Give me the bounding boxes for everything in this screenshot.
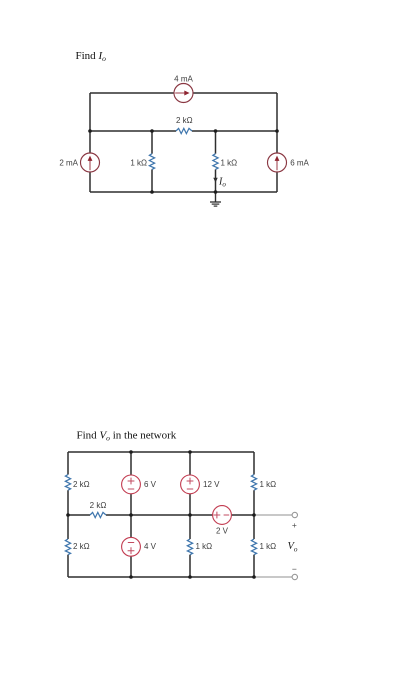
wire right vertical upper stub circuit 2 <box>253 452 255 475</box>
junction branch1-bottom circuit 1 <box>150 190 154 194</box>
junction branch2-bottom ground node circuit 1 <box>214 190 218 194</box>
wire output lead top (gray) <box>254 514 292 516</box>
wire bottom rail circuit 2 <box>68 576 254 578</box>
output terminal bottom <box>292 574 297 579</box>
wire branch x=190 lower circuit 2 <box>189 555 191 577</box>
junction middle x=68 circuit 2 <box>66 513 70 517</box>
resistor 2 kOhm horizontal circuit 1 <box>176 128 192 133</box>
svg-text:+: + <box>292 520 297 530</box>
junction middle x=254 circuit 2 <box>252 513 256 517</box>
svg-text:2 kΩ: 2 kΩ <box>73 542 90 551</box>
svg-text:−: − <box>292 564 297 574</box>
wire branch x=190 upper circuit 2 <box>189 452 191 539</box>
output terminal top <box>292 512 297 517</box>
voltage source 6 V <box>122 475 141 494</box>
wire branch x=152 lower stub <box>151 169 153 192</box>
wire branch x=152 upper stub <box>151 131 153 154</box>
junction bottom x=131 circuit 2 <box>129 575 133 579</box>
svg-text:6 mA: 6 mA <box>290 158 309 167</box>
wire output lead bottom (gray) <box>254 576 292 578</box>
svg-text:1 kΩ: 1 kΩ <box>130 158 147 167</box>
svg-text:1 kΩ: 1 kΩ <box>260 542 277 551</box>
wire middle rail segment b circuit 2 <box>106 514 254 516</box>
junction right-middle circuit 1 <box>275 129 279 133</box>
svg-text:Vo: Vo <box>288 541 298 554</box>
svg-text:Io: Io <box>218 177 226 189</box>
arrow Io current direction <box>213 178 217 183</box>
wire middle rail right segment circuit 1 <box>192 130 277 132</box>
wire branch x=215.5 lower stub <box>215 169 217 192</box>
wire bottom rail circuit 1 <box>90 191 277 193</box>
svg-text:2 kΩ: 2 kΩ <box>73 480 90 489</box>
svg-text:4 V: 4 V <box>144 542 157 551</box>
junction middle x=190 circuit 2 <box>188 513 192 517</box>
junction bottom x=190 circuit 2 <box>188 575 192 579</box>
svg-text:1 kΩ: 1 kΩ <box>260 480 277 489</box>
svg-text:4 mA: 4 mA <box>174 74 193 83</box>
junction top x=131 circuit 2 <box>129 450 133 454</box>
junction branch2-middle circuit 1 <box>214 129 218 133</box>
junction bottom x=254 circuit 2 <box>252 575 256 579</box>
wire left vertical upper stub circuit 2 <box>67 452 69 475</box>
voltage source 4 V <box>122 537 141 556</box>
svg-text:2 V: 2 V <box>216 527 229 536</box>
wire top rail circuit 2 <box>68 451 254 453</box>
ground symbol <box>210 192 221 206</box>
voltage source 12 V <box>181 475 200 494</box>
junction left-middle circuit 1 <box>88 129 92 133</box>
junction top x=190 circuit 2 <box>188 450 192 454</box>
resistor 1 kOhm lower-right circuit 2 <box>251 539 256 555</box>
resistor 1 kOhm right vertical circuit 1 <box>213 154 218 170</box>
svg-text:1 kΩ: 1 kΩ <box>221 158 238 167</box>
svg-text:2 mA: 2 mA <box>59 158 78 167</box>
resistor 2 kOhm lower-left circuit 2 <box>65 539 70 555</box>
current source 4 mA <box>174 84 193 103</box>
voltage source 2 V <box>213 506 232 525</box>
current source 2 mA <box>81 153 100 172</box>
wire right vertical circuit 1 <box>276 93 278 192</box>
svg-text:6 V: 6 V <box>144 480 157 489</box>
svg-text:Find Vo in the network: Find Vo in the network <box>77 430 177 443</box>
wire branch x=215.5 upper stub <box>215 131 217 154</box>
svg-text:Find Io: Find Io <box>76 50 107 63</box>
resistor 1 kOhm left vertical circuit 1 <box>149 154 154 170</box>
wire middle rail left segment circuit 1 <box>90 130 176 132</box>
resistor 2 kOhm upper-left circuit 2 <box>65 475 70 491</box>
wire top rail circuit 1 <box>90 92 277 94</box>
resistor 1 kOhm upper-right circuit 2 <box>251 475 256 491</box>
wire right vertical lower stub circuit 2 <box>253 555 255 577</box>
current source 6 mA <box>268 153 287 172</box>
junction branch1-middle circuit 1 <box>150 129 154 133</box>
resistor 2 kOhm horizontal circuit 2 <box>90 512 106 517</box>
svg-text:12 V: 12 V <box>203 480 220 489</box>
wire left vertical middle stub circuit 2 <box>67 490 69 539</box>
svg-text:1 kΩ: 1 kΩ <box>196 542 213 551</box>
wire middle rail segment a circuit 2 <box>68 514 90 516</box>
wire branch x=131 upper circuit 2 <box>130 452 132 577</box>
resistor 1 kOhm lower-middle circuit 2 <box>187 539 192 555</box>
svg-text:2 kΩ: 2 kΩ <box>176 116 193 125</box>
wire left vertical lower stub circuit 2 <box>67 555 69 577</box>
junction middle x=131 circuit 2 <box>129 513 133 517</box>
wire right vertical middle stub circuit 2 <box>253 490 255 539</box>
wire left vertical circuit 1 <box>89 93 91 192</box>
svg-text:2 kΩ: 2 kΩ <box>90 501 107 510</box>
